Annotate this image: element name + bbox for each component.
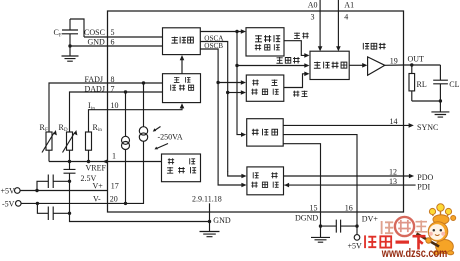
capacitor CF xyxy=(54,19,79,46)
junction on GND wire xyxy=(68,44,71,47)
svg-text:FADJ: FADJ xyxy=(85,75,104,84)
wire square output to multiplexer xyxy=(284,72,310,88)
wire RF bottom to VREF rail xyxy=(48,150,50,161)
svg-text:+5V: +5V xyxy=(348,241,363,250)
block U10 phase detector (xiang-wei-jian-ce-qi) xyxy=(247,167,284,195)
resistor RL xyxy=(409,65,427,101)
svg-text:GND: GND xyxy=(213,216,231,225)
junction Rin/VREF xyxy=(87,160,90,163)
svg-text:20: 20 xyxy=(110,194,118,203)
svg-text:F: F xyxy=(45,128,48,133)
resistor Rin xyxy=(86,123,103,150)
svg-text:GND: GND xyxy=(88,38,106,47)
junction OUT node xyxy=(410,63,413,66)
svg-text:2.9.11.18: 2.9.11.18 xyxy=(192,195,222,204)
ground symbol below CF xyxy=(62,46,79,61)
IC chip boundary U1 (MAX038) xyxy=(108,11,404,212)
svg-text:SYNC: SYNC xyxy=(417,123,438,132)
svg-text:8: 8 xyxy=(111,75,115,84)
terminal +5V bottom xyxy=(348,235,363,251)
wire GND pin tick xyxy=(209,203,211,231)
svg-text:V-: V- xyxy=(93,194,101,203)
wire OSCA xyxy=(200,42,227,172)
wire DGND to ground xyxy=(320,226,322,237)
svg-text:19: 19 xyxy=(390,56,398,65)
svg-text:DADJ: DADJ xyxy=(85,85,105,94)
wire controller to oscillator xyxy=(180,55,185,74)
wire GND to pin 6 xyxy=(70,45,163,47)
wire A1 (pin 4) into multiplexer xyxy=(336,0,341,51)
svg-text:COSC: COSC xyxy=(84,28,105,37)
wire OSCA to phase detector input 1 xyxy=(228,171,247,178)
node C2 junction xyxy=(68,212,71,215)
junction OSCB square tap xyxy=(216,81,219,84)
block U4 reference voltage source (ji-zhun-dian-ya-yuan) xyxy=(162,154,201,182)
svg-text:7: 7 xyxy=(111,85,115,94)
wire comparator to DGND rail xyxy=(283,144,320,226)
svg-text:16: 16 xyxy=(345,203,353,212)
svg-text:in: in xyxy=(91,106,95,111)
wire triangle tap down to comparator xyxy=(237,32,246,137)
svg-text:10: 10 xyxy=(111,101,119,110)
wire A0 (pin 3) into multiplexer xyxy=(318,0,323,51)
svg-text:12: 12 xyxy=(389,168,397,177)
wire OUT pin 19 xyxy=(385,64,441,66)
ground symbol output load xyxy=(431,101,449,117)
svg-text:OUT: OUT xyxy=(408,55,425,64)
wire OSCB xyxy=(200,49,218,181)
svg-text:PDI: PDI xyxy=(417,182,430,191)
terminal +5V xyxy=(1,187,21,196)
junction load ground node xyxy=(439,99,442,102)
svg-text:+5V: +5V xyxy=(1,187,16,196)
capacitor C2 (-5V bypass) xyxy=(37,203,69,220)
svg-text:13: 13 xyxy=(389,177,397,186)
svg-text:4: 4 xyxy=(344,13,348,22)
block U3 oscillator controller (zhu-zhen-kong-zhi-qi) xyxy=(163,74,201,103)
wire PDI pin 13 xyxy=(284,183,415,188)
wire V- pin 20 xyxy=(21,202,107,204)
ground symbol analog GND xyxy=(200,232,220,237)
wire FADJ pin 8 from RF to osc controller xyxy=(49,83,163,132)
label -250VA with pointer arrows xyxy=(153,127,183,150)
wire OSCB to phase detector input 2 xyxy=(218,180,247,187)
current source I2 (right) xyxy=(139,83,147,141)
junction DV+ node xyxy=(355,224,358,227)
junction RD/VREF xyxy=(68,160,71,163)
svg-text:-5V: -5V xyxy=(2,200,15,209)
wire SYNC pin 14 xyxy=(283,123,414,128)
svg-text:www.dzsc.com: www.dzsc.com xyxy=(381,246,447,260)
watermark dzsc.com logo xyxy=(365,204,456,260)
capacitor C1 (+5V bypass) xyxy=(37,175,70,191)
capacitor CL xyxy=(433,65,459,101)
junction analog ground line xyxy=(208,220,211,223)
wire RL/CL bottom xyxy=(412,100,441,102)
svg-text:5: 5 xyxy=(111,28,115,37)
wire V+ pin 17 xyxy=(20,190,107,192)
capacitor C4 (DV+ bypass) xyxy=(321,220,358,233)
junction triangle line xyxy=(235,64,238,67)
svg-text:1: 1 xyxy=(112,152,116,161)
label square wave (fang-bo) xyxy=(293,91,299,97)
svg-text:17: 17 xyxy=(111,181,119,190)
block U9 comparator (bi-jiao-qi) xyxy=(247,119,284,146)
svg-text:PDO: PDO xyxy=(417,173,433,182)
wire RD bottom to VREF rail xyxy=(69,150,71,161)
ground symbol DGND xyxy=(311,237,330,242)
svg-text:DGND: DGND xyxy=(295,214,318,223)
svg-text:VREF: VREF xyxy=(86,163,107,172)
potentiometer RD xyxy=(59,123,78,153)
terminal -5V xyxy=(2,200,21,209)
current source I1 (left) xyxy=(122,92,130,203)
svg-text:-250VA: -250VA xyxy=(158,133,183,142)
wire Iin pin 10 from Rin to osc controller xyxy=(89,103,185,132)
wire cap column down to analog ground xyxy=(70,181,210,221)
junction DGND node xyxy=(319,224,322,227)
junction cap C2 on V- xyxy=(36,202,39,205)
wire OSCA to square shaper input 2 xyxy=(228,90,246,95)
junction OSCA square tap xyxy=(226,91,229,94)
capacitor C3 (2.5V VREF bypass) xyxy=(64,162,76,182)
node C1/C3 junction xyxy=(68,180,71,183)
svg-text:CL: CL xyxy=(449,80,459,89)
svg-text:V+: V+ xyxy=(93,181,104,190)
block U5 sine shaper (zheng-xian-bo-xing-cheng-qi) xyxy=(246,28,284,56)
wire triangle wave to multiplexer xyxy=(237,63,310,68)
wire OSCB to square shaper input 1 xyxy=(218,80,246,85)
svg-text:14: 14 xyxy=(390,117,398,126)
block U2 main oscillator (zhu-zhen-qi) xyxy=(163,28,201,55)
label output stage (shu-chu-ji) xyxy=(363,43,369,50)
wire V- internal to current sources xyxy=(108,141,144,203)
label triangle wave (san-jiao-bo) xyxy=(276,57,282,63)
wire mux output to amp xyxy=(349,63,367,68)
op-amp U8 output stage triangle xyxy=(368,57,385,75)
wire Rin bottom to VREF rail xyxy=(88,150,90,161)
wire COSC from CF to pin 5 xyxy=(70,19,163,37)
svg-text:F: F xyxy=(59,34,62,39)
svg-text:15: 15 xyxy=(310,203,318,212)
junction DADJ/current source xyxy=(124,90,127,93)
junction left current source on V- xyxy=(124,202,127,205)
svg-text:RL: RL xyxy=(417,80,427,89)
wire comparator to DV+ rail xyxy=(283,135,357,235)
svg-text:D: D xyxy=(64,128,68,133)
junction triangle tap xyxy=(235,30,238,33)
block U7 multiplexer (duo-lu-xuan-ze) xyxy=(310,51,349,79)
svg-text:DV+: DV+ xyxy=(362,215,379,224)
wire sine output to multiplexer xyxy=(284,41,310,58)
label sine (zheng-xian) xyxy=(294,32,300,38)
potentiometer RF xyxy=(40,123,57,153)
wire VREF pin 1 rail xyxy=(49,159,162,164)
svg-text:in: in xyxy=(98,128,102,133)
svg-text:3: 3 xyxy=(311,13,315,22)
svg-text:OSCB: OSCB xyxy=(204,42,223,50)
block U6 square shaper (fang-bo-xing-cheng-qi) xyxy=(246,75,283,101)
svg-text:6: 6 xyxy=(111,38,115,47)
wire DADJ pin 7 from RD to osc controller xyxy=(70,92,163,132)
wire PDO pin 12 xyxy=(284,174,415,179)
svg-text:A1: A1 xyxy=(344,1,354,10)
wire triangle output to sine shaper xyxy=(200,29,246,34)
junction cap C1 on V+ xyxy=(35,189,38,192)
junction FADJ/current source xyxy=(142,81,145,84)
svg-text:A0: A0 xyxy=(308,1,318,10)
